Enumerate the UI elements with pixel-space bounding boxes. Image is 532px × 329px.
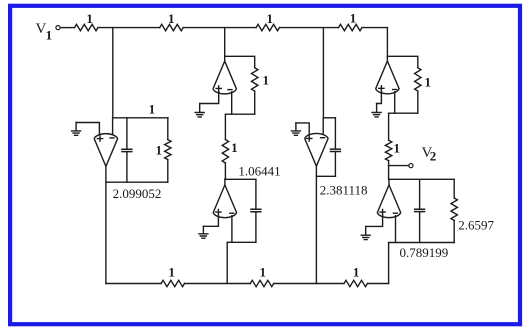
wire U2 plus lead: [200, 92, 219, 104]
resistor R12 value 1: [250, 280, 273, 286]
svg-text:1: 1: [46, 28, 53, 43]
wire block1 top rail: [113, 117, 168, 119]
op-amp U6: [377, 185, 400, 218]
ground G2: [372, 104, 381, 117]
wire block2 bottom rail: [227, 241, 256, 243]
svg-text:1: 1: [424, 74, 431, 89]
resistor R6 value 1 (U2 feedback): [252, 68, 258, 91]
svg-text:1: 1: [353, 265, 360, 280]
op-amp U1 plus input mark: [97, 136, 102, 141]
wire node A down: [112, 28, 114, 118]
op-amp U3 plus input mark: [216, 210, 221, 215]
op-amp U6 plus input mark: [380, 210, 385, 215]
svg-text:1: 1: [168, 11, 175, 26]
resistor R8 value 1 (U5 feedback): [415, 68, 421, 91]
svg-text:1: 1: [350, 11, 357, 26]
wire: [167, 118, 169, 140]
wire U6 apex stub: [388, 179, 390, 185]
wire: [224, 163, 226, 179]
wire ground to U1 plus: [76, 123, 99, 135]
resistor R4 value 1: [339, 24, 362, 30]
wire capacitor C1 bottom: [126, 153, 128, 183]
wire block5 riser: [388, 243, 390, 284]
capacitor C4 plates: [415, 209, 425, 211]
wire capacitor C2 bottom: [255, 213, 257, 243]
wire V2 stub: [389, 165, 409, 167]
op-amp U5: [376, 61, 399, 94]
svg-text:2: 2: [430, 149, 437, 164]
ground G6: [361, 226, 370, 239]
wire: [417, 91, 419, 113]
wire U5 plus lead: [377, 91, 382, 103]
wire U5 minus lead: [394, 92, 396, 113]
wire bottom rail segment: [274, 283, 344, 285]
wire U5 output to feedback: [387, 56, 417, 67]
svg-text:1.06441: 1.06441: [238, 163, 280, 178]
op-amp U4: [305, 133, 328, 166]
wire U2 output to feedback: [225, 56, 255, 67]
op-amp U4 minus input mark: [321, 137, 325, 139]
wire node B down: [224, 28, 226, 62]
wire block2 down to rail: [226, 242, 228, 283]
wire: [453, 179, 455, 198]
wire block1 bottom rail: [106, 181, 168, 183]
resistor R2 value 1: [160, 24, 183, 30]
capacitor C2 plates: [251, 209, 261, 211]
wire: [388, 166, 390, 180]
resistor R11 value 1: [161, 280, 184, 286]
wire down to resistor R9: [388, 113, 390, 140]
node V2 terminal: [409, 164, 413, 168]
op-amp U1 minus input mark: [110, 137, 114, 139]
wire node D down: [386, 28, 388, 61]
op-amp U2 minus input mark: [228, 89, 232, 91]
wire: [279, 27, 338, 29]
wire bottom rail segment: [106, 283, 161, 285]
resistor R5 value 1: [165, 140, 171, 160]
wire U6 minus lead: [395, 216, 397, 243]
wire bottom rail segment: [367, 283, 388, 285]
svg-text:1: 1: [231, 140, 238, 155]
resistor R13 value 1: [344, 280, 367, 286]
wire U2 minus lead: [231, 92, 233, 114]
wire U1 minus lead: [112, 118, 114, 135]
svg-text:1: 1: [155, 143, 162, 158]
wire: [254, 91, 256, 114]
wire down to resistor R7: [224, 114, 226, 139]
wire: [60, 27, 74, 29]
op-amp U4 plus input mark: [307, 136, 312, 141]
wire capacitor C4 bottom: [419, 213, 421, 243]
svg-text:1: 1: [168, 264, 175, 279]
wire capacitor C3 bottom: [334, 152, 336, 176]
resistor R7 value 1: [222, 140, 228, 163]
wire: [388, 161, 390, 166]
resistor R3 value 1: [256, 24, 279, 30]
op-amp U2: [213, 61, 236, 94]
svg-text:0.789199: 0.789199: [400, 245, 449, 260]
wire block2 top rail: [225, 178, 256, 180]
op-amp U2 plus input mark: [216, 86, 221, 91]
resistor R1 value 1: [75, 24, 98, 30]
svg-text:2.381118: 2.381118: [320, 182, 368, 197]
wire U3 plus lead: [203, 215, 218, 226]
wire U1 output down: [105, 166, 107, 283]
op-amp U1: [94, 134, 117, 167]
node V1 terminal: [56, 26, 60, 30]
wire capacitor C3 top: [334, 118, 336, 148]
wire capacitor C2 top: [255, 179, 257, 208]
op-amp U5 plus input mark: [379, 86, 384, 91]
wire: [98, 27, 160, 29]
resistor R10 value 2.6597: [451, 198, 457, 221]
wire U6 plus lead: [366, 215, 383, 226]
wire capacitor C4 top: [419, 179, 421, 208]
op-amp U6 minus input mark: [393, 212, 397, 214]
wire capacitor C1 top: [126, 118, 128, 149]
svg-text:1: 1: [86, 11, 93, 26]
wire: [453, 221, 455, 243]
svg-text:1: 1: [262, 73, 269, 88]
wire block3 bottom rail: [316, 175, 335, 177]
wire node C down: [322, 28, 324, 118]
ground G5: [199, 226, 208, 238]
wire ground to U4 plus: [296, 123, 309, 135]
wire U5 minus node: [389, 112, 418, 114]
wire U2 minus node: [225, 113, 254, 115]
op-amp U3 minus input mark: [230, 212, 234, 214]
svg-text:1: 1: [149, 101, 156, 116]
capacitor C3 plates: [331, 149, 341, 151]
wire U3 apex stub: [224, 179, 226, 185]
svg-text:1: 1: [393, 141, 400, 156]
ground G4: [291, 123, 300, 135]
wire block5 bottom rail: [389, 242, 455, 244]
op-amp U5 minus input mark: [393, 89, 397, 91]
op-amp U3: [213, 185, 236, 218]
svg-text:1: 1: [266, 11, 273, 26]
capacitor C1 plates: [122, 149, 132, 151]
wire block3 top rail: [323, 117, 335, 119]
svg-text:2.099052: 2.099052: [113, 186, 162, 201]
wire: [183, 27, 256, 29]
ground G3: [72, 123, 81, 136]
ground G1: [195, 104, 204, 117]
wire U3 minus lead: [231, 216, 233, 243]
wire U4 minus lead: [322, 118, 324, 134]
svg-text:1: 1: [259, 264, 266, 279]
wire: [167, 160, 169, 183]
wire block5 top rail: [389, 178, 455, 180]
wire bottom rail segment: [185, 283, 251, 285]
resistor R9 value 1: [385, 140, 391, 161]
wire: [362, 27, 387, 29]
svg-text:2.6597: 2.6597: [458, 218, 494, 233]
wire U4 output down: [315, 166, 317, 283]
